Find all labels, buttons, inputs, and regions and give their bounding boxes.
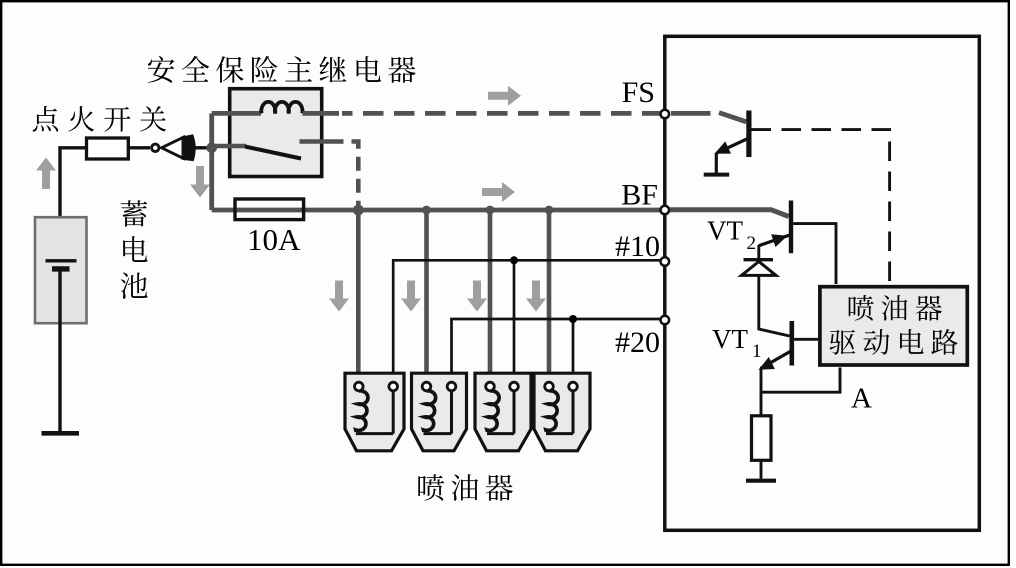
dashed wire collector to drive circuit — [752, 130, 890, 284]
terminal BF — [661, 206, 670, 215]
wire ignition junction up/down (gray riser) — [209, 113, 214, 210]
wire to relay coil — [212, 111, 261, 116]
node on #20 (injector4) — [569, 315, 577, 323]
svg-text:1: 1 — [752, 341, 762, 362]
node injector4 feed — [545, 206, 554, 215]
wire feed injector1 — [356, 210, 361, 384]
wire #10 to injectors 1,3 — [393, 260, 663, 382]
wire emitter to ground — [715, 153, 718, 173]
dashed wire FS to transistor base — [671, 111, 711, 116]
svg-text:A: A — [851, 383, 872, 415]
transistor (FS cut-off) — [712, 111, 752, 160]
relay contact fixed stub — [300, 139, 336, 144]
flow arrow down (injector1) — [329, 281, 349, 312]
node: ignition output junction — [206, 143, 217, 154]
label 安全保险主继电器 (safety main relay) — [148, 56, 416, 83]
svg-text:VT: VT — [707, 216, 743, 246]
ECU box — [665, 36, 980, 530]
ground (battery) — [42, 431, 80, 436]
node injector3 feed — [486, 206, 495, 215]
wire diode to VT1 base — [759, 275, 790, 336]
label 点火开关 (ignition switch) — [33, 106, 166, 132]
svg-text:BF: BF — [621, 179, 658, 212]
transistor VT1 — [755, 321, 794, 376]
wire #20 to injectors 2,4 — [452, 319, 664, 382]
wire fuse/BF line — [212, 208, 663, 213]
label 驱动电路 (drive box line 2) — [830, 329, 958, 355]
label 喷油器 — [418, 474, 513, 501]
terminal #10 — [661, 257, 670, 266]
transistor VT2 — [759, 201, 793, 254]
flow arrow right (FS line) — [488, 86, 521, 106]
svg-text:#10: #10 — [615, 230, 660, 263]
terminal #20 — [661, 316, 670, 325]
label 喷油器 (drive box line 1) — [849, 295, 942, 321]
ignition switch SW — [87, 134, 212, 161]
wire battery to ignition switch — [60, 148, 87, 262]
relay K box — [230, 89, 322, 177]
label 蓄电池 — [121, 200, 148, 299]
resistor R — [752, 416, 772, 461]
node on #10 (injector3) — [510, 256, 518, 264]
injector 2 — [412, 373, 467, 451]
ground (FS transistor) — [704, 173, 730, 177]
wire feed injector4 — [547, 210, 552, 384]
wire VT1 collector to drive box — [794, 338, 818, 341]
svg-text:2: 2 — [747, 233, 757, 254]
battery 蓄电池 — [35, 217, 87, 323]
wire feed injector3 — [488, 210, 493, 384]
wire VT2 collector to drive circuit — [793, 224, 836, 284]
injector 1 — [345, 373, 404, 451]
ground (resistor) — [746, 479, 776, 483]
wire VT2 emitter to diode — [757, 245, 760, 259]
wire VT1 emitter node — [761, 368, 840, 393]
wire to relay contact — [212, 144, 246, 148]
node fuse/relay junction — [353, 205, 364, 216]
fuse F 10A — [235, 199, 304, 220]
wire battery negative to ground — [58, 269, 61, 432]
dashed wire relay output down to fuse line — [336, 142, 359, 206]
drive circuit box 喷油器驱动电路 — [820, 287, 967, 365]
injector 4 — [534, 373, 590, 451]
terminal FS — [661, 110, 670, 119]
flow arrow down (injector4) — [526, 281, 546, 312]
injector 3 — [475, 373, 531, 451]
flow arrow down (to fuse) — [190, 166, 210, 198]
wire relay coil to FS (solid part) — [302, 111, 339, 116]
wire resistor to ground — [760, 460, 763, 478]
relay contact blade — [245, 147, 301, 159]
svg-text:10A: 10A — [247, 222, 301, 257]
diode VD — [742, 260, 777, 276]
wire BF to VT2 base — [670, 210, 789, 217]
flow arrow down (injector2) — [401, 281, 421, 312]
relay coil — [261, 102, 302, 114]
flow arrow down (injector3) — [467, 281, 487, 312]
wire to resistor — [760, 392, 763, 416]
dashed wire to FS terminal — [342, 111, 663, 116]
wire feed injector2 — [424, 210, 429, 384]
flow arrow right (BF line) — [482, 182, 515, 202]
svg-text:FS: FS — [622, 76, 655, 109]
svg-text:#20: #20 — [615, 326, 660, 359]
flow arrow up (from battery) — [36, 158, 56, 190]
svg-text:VT: VT — [712, 324, 748, 354]
node injector2 feed — [422, 206, 431, 215]
